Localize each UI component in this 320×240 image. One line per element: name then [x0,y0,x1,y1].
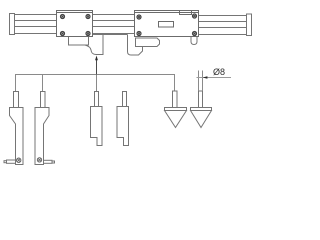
carriage plate right [135,11,199,37]
dimension line Ø8 [197,76,232,78]
rail right segment [199,16,247,35]
screw left plate BR [86,31,90,35]
screw left plate TR [86,14,90,18]
wire rail inner line 1 [15,20,135,22]
arrow up to clamp [95,56,98,75]
probe P2 neck [41,92,46,108]
right plate top label rect [180,11,192,15]
wire distribution line [16,75,175,92]
right clamp hook [128,35,143,56]
block B2 neck [123,92,127,107]
wire rail right inner line 2 [199,27,247,29]
wire rail inner line 2 [15,26,135,28]
right clamp bracket [136,38,160,47]
rail left/middle segment [15,15,135,34]
screw left plate BL [60,31,64,35]
probe P1 body [4,92,23,165]
wire rail right inner line 1 [199,21,247,23]
svg-text:Ø8: Ø8 [213,67,225,77]
screw right plate TL [137,15,141,19]
carriage plate left [57,11,93,37]
cone K2 [191,91,212,128]
probe P2 foot [44,160,53,163]
probe P1 neck [14,92,19,108]
probe P2 screw [37,158,41,162]
right clamp U tab [191,37,197,45]
screw right plate BL [137,31,141,35]
left clamp hook [85,35,103,55]
cone K1 [165,91,187,128]
rail right end cap [247,14,252,36]
block B1 [91,92,103,146]
probe P2 body [35,92,55,165]
wire holder top line [93,34,128,36]
wire drop block 1 [96,75,98,92]
block B1 neck [95,92,99,107]
right plate slot [159,22,174,28]
rail left end cap [10,14,15,35]
probe P1 foot [7,160,16,163]
probe P1 screw [17,158,21,162]
block B2 [117,92,129,146]
wire rod cone K2 [199,71,203,92]
left clamp bracket [69,37,89,46]
screw right plate TR [192,14,196,18]
wire drop probe 2 [42,75,44,92]
screw left plate TL [60,14,64,18]
screw right plate BR [192,31,196,35]
